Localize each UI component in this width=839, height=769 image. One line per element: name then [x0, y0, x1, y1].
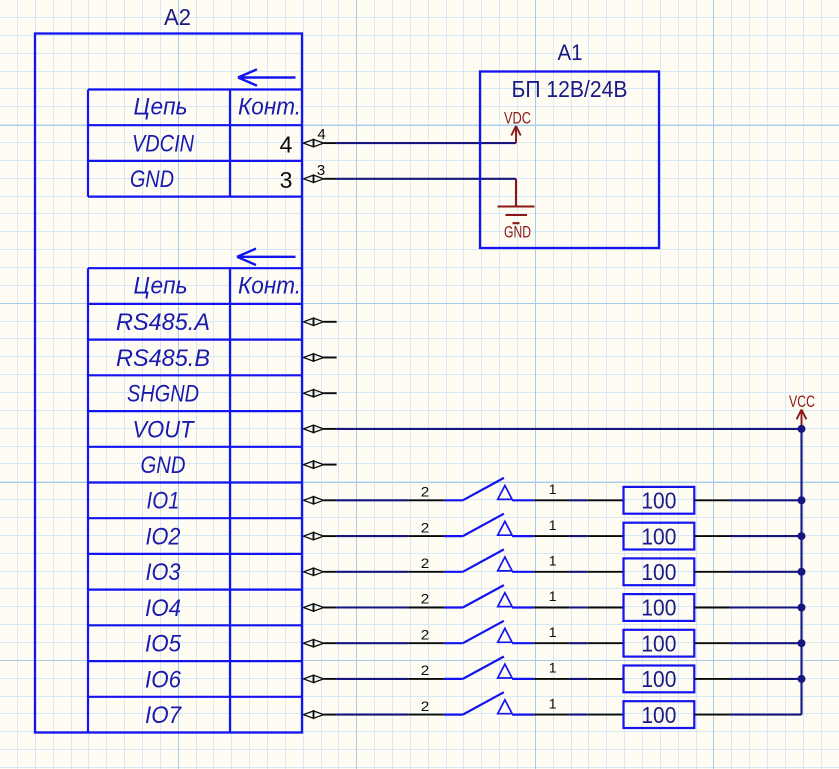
switch SA5 body	[444, 621, 534, 643]
pin 4 connector symbol	[304, 139, 337, 146]
wire switch to resistor IO2	[570, 535, 588, 537]
resistor pin (right) IO1	[694, 499, 730, 501]
svg-text:1: 1	[549, 481, 557, 497]
header cell: Конт.	[238, 94, 301, 121]
net name GND	[141, 452, 186, 479]
resistor pin (left) IO2	[588, 535, 624, 537]
svg-text:IO3: IO3	[146, 559, 182, 586]
net name IO7	[145, 702, 183, 729]
connector block A2 outline	[35, 34, 302, 733]
junction IO3/VCC rail	[798, 568, 806, 576]
resistor pin (left) IO4	[588, 607, 624, 609]
resistor 100 (IO6)	[624, 666, 695, 693]
switch SA3 body	[444, 549, 534, 571]
wire IO1 to switch	[337, 499, 409, 501]
wire pin4 to VDC	[337, 142, 516, 144]
net name VDCIN	[132, 131, 195, 158]
svg-text:4: 4	[317, 126, 325, 143]
svg-text:2: 2	[421, 698, 430, 714]
svg-text:VDC: VDC	[504, 110, 531, 128]
switch SA4 pin 2	[408, 607, 444, 609]
wire switch to resistor IO7	[570, 714, 588, 716]
svg-text:4: 4	[280, 132, 293, 158]
svg-text:IO6: IO6	[145, 666, 182, 693]
svg-text:3: 3	[317, 162, 325, 179]
wire pin3 to GND	[337, 178, 516, 180]
resistor 100 (IO2)	[624, 523, 695, 550]
junction IO4/VCC rail	[798, 604, 806, 612]
svg-text:100: 100	[641, 666, 676, 692]
pin connector symbol VOUT	[304, 425, 337, 432]
switch SA3 pin 1 label	[549, 552, 557, 568]
svg-text:1: 1	[549, 517, 557, 533]
switch SA5 pin 2 label	[421, 626, 430, 642]
resistor pin (left) IO6	[588, 678, 624, 680]
header cell: Цепь	[134, 94, 188, 121]
svg-text:RS485.B: RS485.B	[116, 345, 210, 372]
svg-text:SHGND: SHGND	[127, 381, 199, 408]
switch SA5 pin 2	[408, 642, 444, 644]
svg-text:VDCIN: VDCIN	[132, 131, 195, 158]
pin number 4 (table cell)	[280, 132, 293, 158]
switch SA5 pin 1 label	[549, 624, 557, 640]
net name IO1	[147, 488, 180, 515]
switch SA1 pin 1	[534, 499, 570, 501]
switch SA7 pin 1	[534, 714, 570, 716]
switch SA3 pin 1	[534, 571, 570, 573]
switch SA2 pin 2	[408, 535, 444, 537]
switch SA1 body	[444, 478, 534, 500]
header cell: Цепь (table 2)	[134, 272, 188, 299]
switch SA3 pin 2	[408, 571, 444, 573]
wire switch to resistor IO5	[570, 642, 588, 644]
switch SA1 pin 2	[408, 499, 444, 501]
svg-text:2: 2	[421, 662, 430, 678]
wire resistor IO2 to VCC rail	[730, 535, 802, 537]
junction IO2/VCC rail	[798, 532, 806, 540]
switch SA2 body	[444, 514, 534, 536]
wire resistor IO4 to VCC rail	[730, 606, 802, 608]
pin 4 number label	[317, 126, 325, 143]
switch SA2 pin 2 label	[421, 519, 430, 535]
svg-text:1: 1	[549, 624, 557, 640]
designator A2	[164, 4, 191, 30]
net name SHGND	[127, 381, 199, 408]
switch SA2 pin 1	[534, 535, 570, 537]
switch SA3 pin 2 label	[421, 555, 430, 571]
resistor pin (right) IO3	[694, 571, 730, 573]
wire IO4 to switch	[337, 606, 409, 608]
svg-text:GND: GND	[141, 452, 186, 479]
svg-text:A2: A2	[164, 4, 191, 30]
VCC rail vertical wire	[800, 429, 802, 715]
switch SA1 pin 2 label	[421, 484, 430, 500]
resistor 100 (IO5)	[624, 630, 695, 657]
wire IO2 to switch	[337, 535, 409, 537]
wire switch to resistor IO1	[570, 499, 588, 501]
pin 3 number label	[317, 162, 325, 179]
svg-text:100: 100	[641, 523, 676, 549]
designator A1	[558, 40, 583, 65]
junction IO6/VCC rail	[798, 675, 806, 683]
net name IO2	[146, 523, 181, 550]
resistor pin (right) IO7	[694, 714, 730, 716]
resistor pin (right) IO5	[694, 642, 730, 644]
wire switch to resistor IO3	[570, 571, 588, 573]
resistor pin (right) IO6	[694, 678, 730, 680]
wire resistor IO6 to VCC rail	[730, 678, 802, 680]
svg-text:Цепь: Цепь	[134, 272, 188, 299]
wire IO5 to switch	[337, 642, 409, 644]
svg-text:GND: GND	[504, 224, 531, 242]
wire IO7 to switch	[337, 714, 409, 716]
switch SA5 pin 1	[534, 642, 570, 644]
resistor pin (left) IO5	[588, 642, 624, 644]
pin connector symbol IO2	[304, 532, 337, 539]
net name GND	[130, 166, 174, 193]
wire VOUT to VCC rail	[337, 428, 802, 430]
pin 3 connector symbol	[304, 175, 337, 182]
switch SA6 pin 2 label	[421, 662, 430, 678]
wire IO6 to switch	[337, 678, 409, 680]
svg-text:A1: A1	[558, 40, 583, 65]
svg-text:100: 100	[641, 595, 676, 621]
junction IO5/VCC rail	[798, 639, 806, 647]
junction IO1/VCC rail	[798, 496, 806, 504]
pin connector symbol IO5	[304, 640, 337, 647]
resistor 100 (IO4)	[624, 594, 695, 621]
wire resistor IO3 to VCC rail	[730, 571, 802, 573]
label БП 12В/24В	[512, 76, 628, 102]
net name IO5	[145, 631, 182, 658]
net name IO6	[145, 666, 182, 693]
svg-text:Конт.: Конт.	[238, 94, 301, 121]
svg-text:2: 2	[421, 519, 430, 535]
switch SA1 pin 1 label	[549, 481, 557, 497]
resistor pin (right) IO4	[694, 607, 730, 609]
resistor 100 (IO7)	[624, 701, 695, 728]
svg-text:БП 12В/24В: БП 12В/24В	[512, 76, 628, 102]
pin connector symbol RS485.A	[304, 318, 337, 325]
switch SA7 pin 2	[408, 714, 444, 716]
svg-text:Цепь: Цепь	[134, 94, 188, 121]
pin connector symbol IO4	[304, 604, 337, 611]
switch SA6 pin 1	[534, 678, 570, 680]
svg-text:1: 1	[549, 588, 557, 604]
wire resistor IO1 to VCC rail	[730, 499, 802, 501]
switch SA4 pin 1	[534, 607, 570, 609]
wire resistor IO5 to VCC rail	[730, 642, 802, 644]
pin connector symbol GND	[304, 461, 337, 468]
power symbol VCC	[789, 393, 815, 428]
svg-text:100: 100	[641, 702, 676, 728]
table 1 frame	[88, 90, 302, 197]
svg-text:IO2: IO2	[146, 523, 181, 550]
svg-text:1: 1	[549, 660, 557, 676]
ground symbol GND (A1)	[498, 179, 535, 242]
pin connector symbol IO7	[304, 711, 337, 718]
table 2 frame	[88, 268, 302, 732]
header cell: Конт. (table 2)	[238, 272, 301, 299]
svg-text:RS485.A: RS485.A	[116, 309, 210, 336]
svg-text:1: 1	[549, 695, 557, 711]
net name RS485.A	[116, 309, 210, 336]
svg-text:2: 2	[421, 484, 430, 500]
pin connector symbol IO6	[304, 675, 337, 682]
pin connector symbol SHGND	[304, 390, 337, 397]
svg-text:100: 100	[641, 488, 676, 514]
svg-text:IO5: IO5	[145, 631, 182, 658]
svg-text:100: 100	[641, 630, 676, 656]
switch SA6 pin 2	[408, 678, 444, 680]
switch SA4 pin 1 label	[549, 588, 557, 604]
switch SA7 pin 2 label	[421, 698, 430, 714]
pin connector symbol IO1	[304, 497, 337, 504]
resistor pin (right) IO2	[694, 535, 730, 537]
net name VOUT	[133, 416, 196, 443]
switch SA7 body	[444, 692, 534, 714]
svg-text:100: 100	[641, 559, 676, 585]
svg-text:IO1: IO1	[147, 488, 180, 515]
switch SA4 body	[444, 585, 534, 607]
switch SA2 pin 1 label	[549, 517, 557, 533]
junction VOUT/VCC	[798, 425, 806, 433]
resistor 100 (IO3)	[624, 558, 695, 585]
resistor pin (left) IO1	[588, 499, 624, 501]
wire switch to resistor IO4	[570, 606, 588, 608]
svg-text:1: 1	[549, 552, 557, 568]
net name IO4	[145, 595, 181, 622]
svg-text:IO7: IO7	[145, 702, 183, 729]
switch SA6 pin 1 label	[549, 660, 557, 676]
svg-text:2: 2	[421, 626, 430, 642]
switch SA6 body	[444, 657, 534, 679]
power symbol VDC	[504, 110, 531, 144]
svg-text:2: 2	[421, 591, 430, 607]
net name IO3	[146, 559, 182, 586]
net name RS485.B	[116, 345, 210, 372]
pin number 3 (table cell)	[280, 167, 293, 193]
svg-text:VOUT: VOUT	[133, 416, 196, 443]
pin connector symbol RS485.B	[304, 354, 337, 361]
svg-text:GND: GND	[130, 166, 174, 193]
arrow above table 1	[238, 69, 296, 85]
resistor pin (left) IO3	[588, 571, 624, 573]
switch SA7 pin 1 label	[549, 695, 557, 711]
arrow above table 2	[237, 249, 296, 265]
svg-text:Конт.: Конт.	[238, 272, 301, 299]
svg-text:VCC: VCC	[789, 393, 815, 411]
resistor 100 (IO1)	[624, 487, 695, 514]
power supply block A1 outline	[480, 72, 659, 249]
wire IO3 to switch	[337, 571, 409, 573]
svg-text:2: 2	[421, 555, 430, 571]
switch SA4 pin 2 label	[421, 591, 430, 607]
svg-text:3: 3	[280, 167, 293, 193]
svg-text:IO4: IO4	[145, 595, 181, 622]
pin connector symbol IO3	[304, 568, 337, 575]
wire resistor IO7 to VCC rail	[730, 714, 802, 716]
resistor pin (left) IO7	[588, 714, 624, 716]
wire switch to resistor IO6	[570, 678, 588, 680]
